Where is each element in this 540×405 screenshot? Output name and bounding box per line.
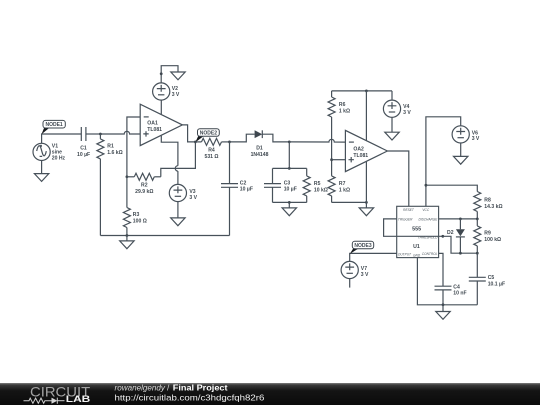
capacitor C5 [469, 253, 505, 305]
resistor R9 [474, 219, 501, 253]
ground below C3R5 [282, 202, 296, 215]
wire OA1 VCC to V2 [160, 100, 162, 114]
svg-text:NODE3: NODE3 [354, 243, 371, 249]
wire to OA2 + input [332, 159, 346, 161]
wire main line to OA2 - input with hop over R6R7 [289, 139, 345, 142]
svg-text:10 nF: 10 nF [453, 291, 466, 297]
svg-text:U1: U1 [413, 244, 420, 250]
svg-text:10.1 µF: 10.1 µF [488, 281, 505, 287]
node R9/C5 [476, 252, 479, 255]
svg-text:3 V: 3 V [189, 195, 197, 201]
capacitor C3 [264, 168, 297, 202]
node R4/C2 [228, 141, 231, 144]
source V4 3 V [383, 91, 411, 117]
footer bar [0, 383, 540, 405]
node NODE1 [42, 120, 66, 134]
wire OA1 VEE jog [161, 136, 178, 166]
svg-text:R4: R4 [208, 147, 215, 153]
resistor R6 [328, 91, 350, 117]
svg-text:C3: C3 [284, 180, 291, 186]
ground above right of V2 [171, 72, 185, 80]
node NODE2 [195, 129, 219, 143]
wire to D1 jog [230, 134, 255, 142]
svg-text:R1: R1 [107, 144, 114, 150]
ground below V3 [171, 218, 185, 226]
capacitor C4 [435, 284, 467, 305]
wire DISCHARGE to R8/R9 [439, 218, 478, 220]
ground at rail [120, 236, 134, 249]
capacitor C1 [77, 127, 90, 158]
svg-text:29.9 kΩ: 29.9 kΩ [135, 189, 153, 195]
svg-text:1 kΩ: 1 kΩ [339, 109, 350, 115]
svg-text:3 V: 3 V [403, 110, 411, 116]
svg-text:OUTPUT: OUTPUT [398, 252, 412, 256]
svg-text:GND: GND [413, 254, 421, 258]
resistor R3 [123, 208, 146, 228]
svg-text:RESET: RESET [403, 208, 415, 212]
svg-text:C4: C4 [453, 284, 460, 290]
source V1 sine 20 Hz [33, 143, 66, 161]
svg-text:10 kΩ: 10 kΩ [314, 188, 328, 194]
svg-text:OA2: OA2 [353, 146, 364, 152]
ground below C4 rail [436, 305, 450, 320]
node C3R5 top [288, 167, 291, 170]
svg-text:20 Hz: 20 Hz [52, 156, 66, 162]
wire R1 junction to OA1 + input with hop over feedback [100, 131, 140, 134]
svg-text:10 µF: 10 µF [284, 187, 297, 193]
svg-text:R8: R8 [484, 197, 491, 203]
source V2 3 V [153, 83, 180, 100]
svg-text:531 Ω: 531 Ω [205, 154, 219, 160]
svg-text:rowanelgendy: rowanelgendy [115, 383, 166, 393]
node output/NODE2 [194, 141, 197, 144]
svg-text:CONTROL: CONTROL [422, 252, 438, 256]
svg-text:3 V: 3 V [172, 92, 180, 98]
resistor R5 [303, 168, 328, 202]
wire OA2 VCC [365, 91, 367, 141]
wire V6 to ground [460, 143, 462, 156]
wire V2 top to ground [161, 66, 178, 83]
node junction C1/R1 [99, 133, 102, 136]
node top rail VCC [365, 90, 368, 93]
wire R3 to rail [126, 228, 128, 236]
svg-text:1 kΩ: 1 kΩ [339, 188, 350, 194]
svg-text:THRESHOLD: THRESHOLD [418, 235, 438, 239]
svg-text:TRIGGER: TRIGGER [398, 217, 413, 221]
svg-text:C1: C1 [80, 145, 87, 151]
wire C1 to R1 junction [86, 133, 101, 135]
svg-text:R3: R3 [133, 212, 140, 218]
wire R6 bottom to R7 top [331, 117, 333, 176]
C3/R5 frame bottom [273, 201, 307, 203]
svg-text:100 kΩ: 100 kΩ [484, 237, 501, 243]
svg-text:TL081: TL081 [147, 127, 162, 133]
wire V7 stub [349, 279, 351, 288]
node D2 bottom [459, 252, 462, 255]
node NODE3 [350, 241, 374, 254]
resistor R8 [474, 192, 503, 220]
resistor R2 [127, 173, 161, 195]
svg-text:D2: D2 [447, 230, 454, 236]
node + input tap [330, 158, 333, 161]
wire OA2 VEE [365, 162, 367, 203]
svg-text:R7: R7 [339, 181, 346, 187]
ground below V1 [34, 174, 48, 182]
svg-text:Final Project: Final Project [173, 383, 228, 393]
svg-text:R2: R2 [141, 183, 148, 189]
resistor R1 [97, 134, 123, 159]
op-amp OA1 [140, 104, 182, 145]
svg-text:http://circuitlab.com/c3hdgcfq: http://circuitlab.com/c3hdgcfqh82r6 [115, 392, 265, 402]
node R8/R9 [476, 218, 479, 221]
svg-text:OA1: OA1 [147, 121, 158, 127]
node D2 top [459, 218, 462, 221]
wire OUTPUT to V7 [350, 253, 397, 261]
svg-text:DISCHARGE: DISCHARGE [418, 217, 438, 221]
wire D1 out down to main line [262, 134, 289, 142]
wire to V3 [177, 171, 179, 184]
source V6 3 V [452, 126, 480, 143]
svg-text:10 µF: 10 µF [77, 152, 90, 158]
svg-text:10 µF: 10 µF [240, 187, 253, 193]
logo wire glyph [24, 398, 65, 404]
svg-text:3 V: 3 V [472, 136, 480, 142]
wire from NODE1 corner to C1 [42, 134, 82, 143]
resistor R4 [195, 138, 229, 159]
wire OA1 inverting input [127, 117, 140, 177]
svg-text:C5: C5 [488, 275, 495, 281]
node R2 tap [126, 175, 129, 178]
hop of VEE wire over feedback wire [175, 166, 178, 171]
svg-text:R9: R9 [484, 231, 491, 237]
svg-text:D1: D1 [256, 145, 263, 151]
svg-text:NODE2: NODE2 [200, 131, 217, 137]
svg-text:NODE1: NODE1 [45, 122, 62, 128]
svg-text:TL081: TL081 [353, 153, 368, 159]
bottom rail OA2 [332, 201, 367, 203]
svg-text:C2: C2 [240, 180, 247, 186]
svg-text:R5: R5 [314, 181, 321, 187]
svg-text:VCC: VCC [422, 208, 429, 212]
svg-text:R6: R6 [339, 102, 346, 108]
wire V4 to ground [391, 117, 393, 132]
top rail [332, 90, 392, 92]
wire 555 GND rail [417, 258, 477, 305]
svg-text:100 Ω: 100 Ω [133, 219, 147, 225]
ground below V6 [454, 156, 468, 164]
wire threshold jog down [443, 236, 478, 253]
wire OA2 output to 555 RESET [387, 151, 408, 206]
555 timer U1 [397, 206, 439, 257]
node on V2 wire [160, 72, 163, 75]
wire V6 branch [426, 117, 461, 207]
svg-text:1.6 kΩ: 1.6 kΩ [107, 150, 122, 156]
diode D1 1N4148 [251, 130, 269, 158]
svg-text:3 V: 3 V [361, 272, 369, 278]
ground below rail [359, 202, 373, 215]
wire CONTROL to C4 [439, 253, 443, 286]
source V7 3 V [341, 261, 369, 278]
node THRESHOLD [441, 235, 444, 238]
bottom rail [100, 235, 229, 237]
wire TRIGGER/THRESHOLD loop [384, 219, 443, 236]
wire feedback down to R3 [126, 177, 128, 208]
wire down to C3/R5 pair [288, 142, 290, 169]
node R3/rail [126, 234, 129, 237]
node D1 out [288, 141, 291, 144]
ground below V4 [385, 132, 399, 140]
svg-text:555: 555 [412, 226, 421, 232]
wire to R8 [426, 185, 477, 191]
wire OA1 output to NODE2 junction [182, 125, 195, 142]
wire feedback riser from output node to R2 [161, 142, 196, 177]
op-amp OA2 [345, 130, 387, 171]
wire V1 to ground [41, 161, 43, 174]
node VEE rail [365, 201, 368, 204]
capacitor C2 [221, 142, 253, 236]
node V6/R8/VCC [425, 184, 428, 187]
node C3R5 bottom [288, 201, 291, 204]
svg-text:1N4148: 1N4148 [251, 152, 269, 158]
svg-text:14.3 kΩ: 14.3 kΩ [484, 204, 502, 210]
diode D2 [447, 219, 465, 253]
source V3 3 V [169, 184, 197, 201]
C3/R5 frame top [273, 167, 307, 169]
resistor R7 [328, 176, 350, 203]
wire R1 bottom to rail [99, 159, 101, 236]
wire V3 to ground [177, 202, 179, 218]
svg-text:LAB: LAB [66, 394, 91, 404]
node C4/rail [442, 303, 445, 306]
